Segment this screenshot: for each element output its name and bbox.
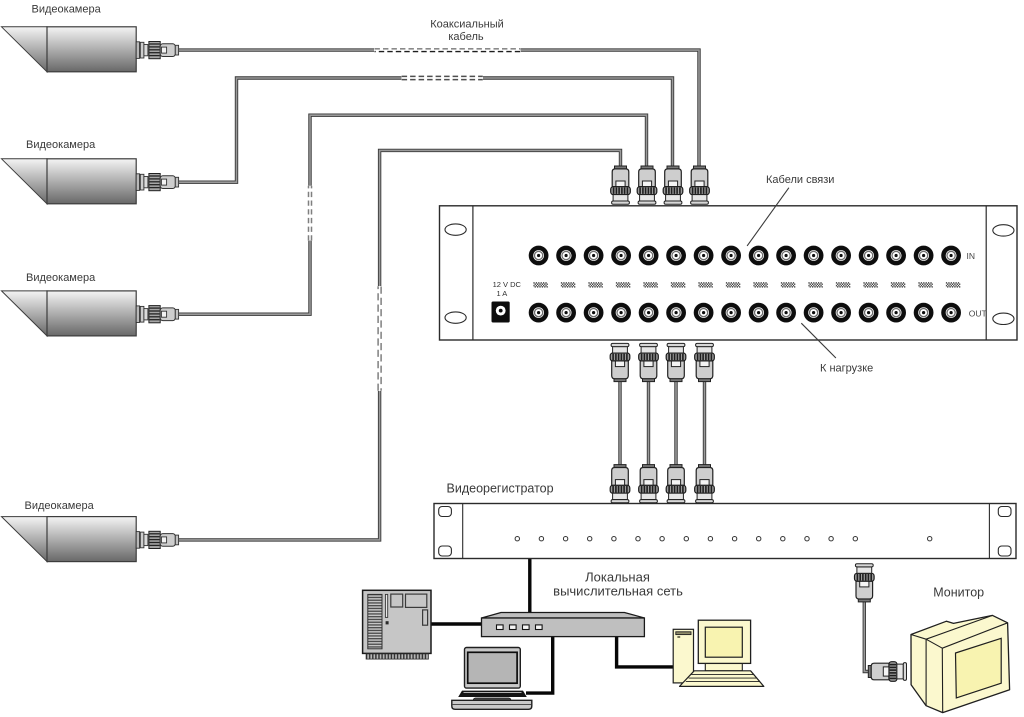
laptop base — [452, 700, 532, 709]
recorder mounting hole bottom-right — [998, 546, 1011, 556]
svg-text:Монитор: Монитор — [933, 586, 984, 600]
BNC output jack OUT5 — [639, 303, 658, 322]
BNC plug into splitter top at x=620.5 — [611, 166, 631, 204]
video camera 3 — [2, 291, 179, 336]
BNC output jack OUT2 — [557, 303, 576, 322]
tower PC bottom grill — [366, 654, 428, 659]
recorder mounting hole top-left — [439, 507, 452, 517]
vent hatch mark 9 — [753, 283, 767, 287]
wire splitter OUT to recorder patch cable at x=648.5 — [647, 381, 650, 465]
wire camera2 to splitter (solid, up and right) — [179, 78, 401, 182]
recorder front LED 11 — [757, 537, 761, 541]
desktop tower button — [677, 636, 680, 638]
recorder front LED 2 — [539, 537, 543, 541]
wire camera3 coax upper part to plug — [310, 115, 647, 185]
vent hatch mark 1 — [533, 283, 547, 287]
svg-text:Видеокамера: Видеокамера — [26, 272, 96, 284]
switch port 2 — [510, 625, 517, 630]
vent hatch mark 15 — [918, 283, 932, 287]
splitter left ear separator — [472, 206, 474, 340]
recorder right ear separator — [988, 504, 990, 559]
vent hatch mark 4 — [616, 283, 630, 287]
wire switch to laptop — [526, 637, 553, 693]
svg-text:Видеокамера: Видеокамера — [26, 139, 96, 151]
vent hatch mark 5 — [643, 283, 657, 287]
wire camera1 to splitter input (coax, solid left part) — [179, 48, 374, 51]
BNC input jack IN14 — [887, 246, 906, 265]
video camera 1 — [2, 27, 179, 72]
vent hatch mark 11 — [808, 283, 822, 287]
recorder mounting hole top-right — [998, 507, 1011, 517]
BNC input jack IN6 — [667, 246, 686, 265]
svg-text:Видеокамера: Видеокамера — [25, 500, 95, 512]
tower PC right slot — [423, 610, 428, 625]
svg-text:К нагрузке: К нагрузке — [820, 362, 873, 374]
BNC output jack OUT8 — [722, 303, 741, 322]
splitter right ear separator — [985, 206, 987, 340]
svg-text:кабель: кабель — [448, 31, 484, 43]
wire camera1 coax right part down to plug — [521, 50, 699, 166]
BNC input jack IN4 — [612, 246, 631, 265]
recorder front LED 8 — [684, 537, 688, 541]
svg-text:12 V DC: 12 V DC — [493, 280, 522, 289]
BNC output jack OUT6 — [667, 303, 686, 322]
tower PC body — [363, 590, 431, 653]
desktop monitor stand — [705, 663, 742, 670]
BNC output jack OUT11 — [804, 303, 823, 322]
svg-text:IN: IN — [967, 251, 976, 261]
BNC input jack IN16 — [942, 246, 961, 265]
pointer line for Кабели связи — [747, 188, 789, 246]
vent hatch mark 16 — [946, 283, 960, 287]
CRT internal edges — [911, 615, 1008, 712]
BNC input jack IN9 — [749, 246, 768, 265]
splitter mounting hole top-left — [445, 224, 466, 235]
recorder left ear separator — [462, 504, 464, 559]
vent hatch mark 6 — [671, 283, 685, 287]
recorder front LED 1 — [515, 537, 519, 541]
BNC input jack IN7 — [694, 246, 713, 265]
vent hatch mark 10 — [781, 283, 795, 287]
splitter mounting hole top-right — [993, 225, 1014, 236]
vent hatch mark 7 — [698, 283, 712, 287]
recorder mounting hole bottom-left — [439, 546, 452, 556]
svg-text:OUT: OUT — [969, 309, 987, 319]
BNC input jack IN15 — [914, 246, 933, 265]
vent hatch mark 14 — [891, 283, 905, 287]
desktop monitor screen — [705, 627, 742, 657]
vent hatch mark 3 — [588, 283, 602, 287]
switch port 1 — [497, 625, 504, 630]
wire camera3 to splitter (solid lower part) — [179, 241, 310, 314]
LAN switch front face — [482, 618, 645, 637]
tower PC drive bay 1 — [391, 594, 403, 607]
recorder front LED 4 — [588, 537, 592, 541]
BNC input jack IN8 — [722, 246, 741, 265]
wire camera3 coax dashed vertical section — [308, 186, 310, 241]
BNC plug on splitter bottom at x=620 — [610, 343, 630, 381]
BNC plug on splitter bottom at x=648.5 — [639, 343, 659, 381]
DC power jack — [492, 302, 510, 323]
switch port 3 — [523, 625, 530, 630]
recorder front LED 12 — [781, 537, 785, 541]
BNC output jack OUT1 — [529, 303, 548, 322]
recorder front LED 13 — [805, 537, 809, 541]
video recorder rack unit chassis — [434, 504, 1016, 559]
wire tower PC to switch — [431, 622, 481, 625]
BNC plug into recorder top at x=676 — [666, 465, 686, 503]
BNC output jack OUT14 — [887, 303, 906, 322]
BNC input jack IN11 — [804, 246, 823, 265]
BNC output jack OUT15 — [914, 303, 933, 322]
laptop screen — [468, 652, 517, 683]
BNC output jack OUT4 — [612, 303, 631, 322]
recorder front LED 7 — [660, 537, 664, 541]
LAN switch top face — [482, 613, 645, 619]
BNC output jack OUT12 — [832, 303, 851, 322]
wire splitter OUT to recorder patch cable at x=704.5 — [703, 381, 706, 465]
BNC input jack IN12 — [832, 246, 851, 265]
BNC plug into splitter top at x=673 — [663, 166, 683, 204]
desktop tower floppy slot — [676, 632, 691, 635]
recorder front LED 3 — [563, 537, 567, 541]
pointer line for К нагрузке — [801, 323, 836, 358]
video splitter/amplifier rack unit chassis — [440, 206, 1018, 340]
recorder front LED 16 — [928, 537, 932, 541]
recorder front LED 5 — [612, 537, 616, 541]
wire switch to desktop PC — [617, 637, 673, 667]
wire camera4 coax upper part to plug — [380, 150, 621, 286]
wire camera1 coax dashed middle section — [375, 48, 521, 50]
wire splitter OUT to recorder patch cable at x=620 — [618, 381, 621, 465]
BNC input jack IN1 — [529, 246, 548, 265]
recorder front LED 10 — [732, 537, 736, 541]
BNC output jack OUT16 — [942, 303, 961, 322]
BNC input jack IN2 — [557, 246, 576, 265]
splitter mounting hole bottom-left — [445, 312, 466, 323]
video camera 4 — [2, 517, 179, 562]
BNC plug into recorder top at x=704.5 — [695, 465, 715, 503]
tower PC drive bay 2 — [406, 594, 427, 607]
svg-text:1 A: 1 A — [496, 289, 507, 298]
desktop PC tower — [673, 629, 693, 683]
laptop keyboard band — [458, 691, 527, 697]
CRT screen — [956, 638, 1002, 698]
wire camera2 coax dashed section — [402, 75, 483, 77]
svg-text:Видеорегистратор: Видеорегистратор — [447, 482, 554, 496]
wire camera2 coax right part down to plug — [483, 78, 673, 166]
svg-text:Коаксиальный: Коаксиальный — [430, 19, 504, 31]
BNC plug into monitor (horizontal) — [868, 662, 906, 682]
BNC plug on recorder bottom (monitor feed) — [855, 564, 875, 602]
laptop touchpad bar — [473, 698, 511, 703]
vent hatch mark 2 — [561, 283, 575, 287]
BNC plug on splitter bottom at x=704.5 — [695, 343, 715, 381]
svg-text:вычислительная сеть: вычислительная сеть — [553, 584, 683, 599]
BNC output jack OUT9 — [749, 303, 768, 322]
wire camera4 to splitter (solid lower part) — [179, 391, 380, 540]
BNC input jack IN3 — [584, 246, 603, 265]
vent hatch mark 13 — [863, 283, 877, 287]
BNC plug into splitter top at x=699.5 — [690, 166, 710, 204]
BNC output jack OUT3 — [584, 303, 603, 322]
svg-text:Видеокамера: Видеокамера — [32, 4, 102, 16]
laptop lid — [465, 648, 521, 689]
vent hatch mark 8 — [726, 283, 740, 287]
video camera 2 — [2, 159, 179, 204]
CRT monitor body (silhouette) — [911, 615, 1010, 712]
BNC output jack OUT10 — [777, 303, 796, 322]
wire camera4 coax dashed vertical section — [377, 286, 379, 391]
recorder front LED 14 — [829, 537, 833, 541]
svg-text:Локальная: Локальная — [585, 569, 650, 584]
wire recorder to monitor coax — [864, 601, 869, 672]
recorder front LED 9 — [708, 537, 712, 541]
BNC plug into recorder top at x=648.5 — [639, 465, 659, 503]
recorder front LED 15 — [853, 537, 857, 541]
BNC plug on splitter bottom at x=676 — [666, 343, 686, 381]
desktop monitor — [698, 620, 750, 663]
desktop keyboard — [680, 671, 764, 687]
tower PC button — [386, 621, 389, 624]
BNC plug into splitter top at x=647 — [637, 166, 657, 204]
vent hatch mark 12 — [836, 283, 850, 287]
switch port 4 — [536, 625, 543, 630]
BNC input jack IN5 — [639, 246, 658, 265]
wire splitter OUT to recorder patch cable at x=676 — [674, 381, 677, 465]
svg-text:Кабели связи: Кабели связи — [766, 174, 834, 186]
BNC output jack OUT13 — [859, 303, 878, 322]
tower PC vent grille — [368, 594, 382, 648]
tower PC thin slot — [385, 594, 387, 617]
recorder front LED 6 — [636, 537, 640, 541]
BNC output jack OUT7 — [694, 303, 713, 322]
wire recorder to LAN switch — [528, 559, 531, 613]
BNC input jack IN10 — [777, 246, 796, 265]
splitter mounting hole bottom-right — [993, 313, 1014, 324]
BNC input jack IN13 — [859, 246, 878, 265]
BNC plug into recorder top at x=620 — [610, 465, 630, 503]
